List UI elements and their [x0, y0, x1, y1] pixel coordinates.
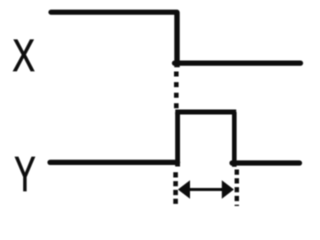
svg-text:Y: Y	[14, 147, 35, 202]
svg-text:X: X	[12, 30, 35, 81]
